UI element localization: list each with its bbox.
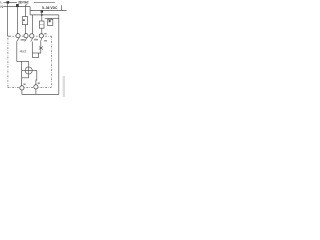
svg-text:5..36 VDC: 5..36 VDC xyxy=(42,6,58,10)
DC rail lower xyxy=(30,9,66,11)
wire horizontal to lamp xyxy=(17,60,29,62)
blade of terminal 2 xyxy=(25,38,27,42)
wire terminal4 down xyxy=(39,41,41,53)
wire to switch S1 xyxy=(21,78,23,86)
enclosure dashed top border xyxy=(8,35,52,37)
wire S2 to bus xyxy=(35,89,37,94)
arrow on rail L xyxy=(7,1,10,3)
label near terminals left xyxy=(21,39,25,41)
bus line lower xyxy=(45,17,59,19)
switch S1 terminal xyxy=(20,86,24,90)
wire fuse to terminal 2 xyxy=(24,25,26,34)
pin 2 of U1 xyxy=(51,18,53,19)
junction dot xyxy=(41,14,43,16)
wire terminal1 down xyxy=(16,41,18,61)
terminal 2 xyxy=(24,34,28,38)
bottom bus xyxy=(22,93,59,95)
wire from N down to terminal 1 xyxy=(17,7,19,34)
wire lamp bottom join xyxy=(22,77,29,79)
blade of terminal 1 xyxy=(17,38,19,42)
wire phase to fuse xyxy=(26,5,28,17)
arrow on rail N xyxy=(16,4,19,7)
blade of terminal 3 xyxy=(31,38,33,42)
wire node to terminal 3 xyxy=(31,15,33,34)
wire from L down xyxy=(7,3,9,37)
wire S1 to bus xyxy=(21,90,23,94)
wire left branch down xyxy=(21,61,23,77)
lamp cross vertical xyxy=(28,67,30,78)
terminal 1 xyxy=(16,34,20,38)
svg-text:N: N xyxy=(0,4,3,9)
enclosure dashed left border xyxy=(7,38,9,88)
label near terminals right xyxy=(34,39,38,41)
rail L (230VAC phase) xyxy=(3,2,17,4)
bend N rail to lower rail xyxy=(29,7,31,11)
lamp cross horizontal xyxy=(22,69,37,71)
wire DC rail to node xyxy=(29,10,31,15)
svg-text:230 VAC: 230 VAC xyxy=(18,0,29,4)
resistor mid line xyxy=(39,24,44,26)
switch S2 terminal xyxy=(34,85,38,89)
resistor R1 xyxy=(39,21,44,28)
svg-text:4x2: 4x2 xyxy=(20,49,27,53)
label S1 xyxy=(23,83,25,85)
arrows on terminal4 wire xyxy=(39,47,43,50)
wire lamp right to S2 xyxy=(35,70,38,84)
enclosure dashed bottom border xyxy=(8,86,52,88)
lamp P1 xyxy=(25,67,32,74)
stub to DC text xyxy=(61,5,63,10)
arrow on DC rail xyxy=(41,11,43,13)
fuse F1 xyxy=(22,17,27,25)
terminal 3 xyxy=(30,34,34,38)
wire lamp top arm xyxy=(28,61,30,67)
blade of terminal 4 xyxy=(41,38,43,42)
box U1 output stage xyxy=(48,19,53,25)
wire terminal3 down to box xyxy=(31,42,33,54)
U1 inner mark xyxy=(49,20,51,22)
bus line upper xyxy=(30,14,59,16)
pin 1 of U1 xyxy=(48,18,50,19)
wire stub at enclosure corner xyxy=(8,35,11,37)
box K1 xyxy=(33,53,39,58)
right return wire xyxy=(58,15,60,95)
DC rail top xyxy=(34,2,55,4)
fuse inner mark xyxy=(23,19,25,21)
labels right of terminal 4 xyxy=(44,33,46,35)
enclosure dashed right border xyxy=(50,36,52,87)
shading band right xyxy=(63,76,65,97)
wire resistor to terminal 4 xyxy=(41,28,43,33)
rail N xyxy=(3,6,30,8)
label S2 xyxy=(38,82,40,84)
terminal 4 xyxy=(39,34,43,38)
wire to resistor xyxy=(41,10,43,21)
